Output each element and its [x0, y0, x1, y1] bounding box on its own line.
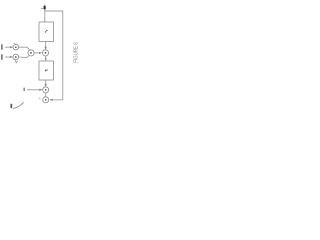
arrowhead into summer D	[45, 84, 47, 87]
wire summer A to summer C2	[19, 47, 30, 50]
tick left of input line	[41, 8, 44, 10]
input arrow into summer D from left	[27, 89, 40, 91]
wire input vertical into block 1	[44, 5, 46, 23]
tick left of summer E	[39, 97, 41, 99]
svg-text:FIGURE 6: FIGURE 6	[74, 42, 80, 63]
arrowhead into summer C3 from left	[39, 52, 42, 54]
summer C3	[42, 50, 48, 56]
input arrow b	[5, 56, 12, 58]
input arrow a	[5, 46, 12, 48]
label a (rotated numeral)	[1, 44, 3, 50]
leader tick below summer B	[15, 60, 17, 63]
wire feedforward branch to summer E	[45, 11, 63, 100]
arrowhead into block 2	[45, 58, 47, 61]
summer E	[43, 97, 49, 103]
label 10 with leader line	[10, 104, 12, 108]
block 2	[39, 61, 54, 80]
label 28 at input arrow	[44, 6, 46, 10]
wire block 2 to summer D	[45, 80, 47, 86]
wire summer D to summer E	[45, 93, 47, 97]
wire summer B to summer C2	[19, 55, 30, 57]
summer D	[43, 87, 49, 93]
wire summer C2 to summer C3	[34, 52, 41, 54]
arrowhead into summer E from right	[49, 99, 52, 101]
label left of arrow into D	[23, 88, 25, 91]
summer A	[13, 44, 19, 50]
block 1	[39, 22, 54, 42]
wire block 1 to summer C3	[45, 42, 47, 50]
summer C2	[28, 50, 34, 56]
label b (rotated numeral)	[1, 54, 3, 60]
tick above summer A	[14, 42, 16, 44]
summer B	[13, 54, 19, 60]
wire summer C3 to block 2	[45, 56, 47, 61]
label inside block 2	[45, 70, 47, 72]
arrowhead into summer C3	[45, 47, 47, 50]
label inside block 1	[45, 31, 46, 32]
